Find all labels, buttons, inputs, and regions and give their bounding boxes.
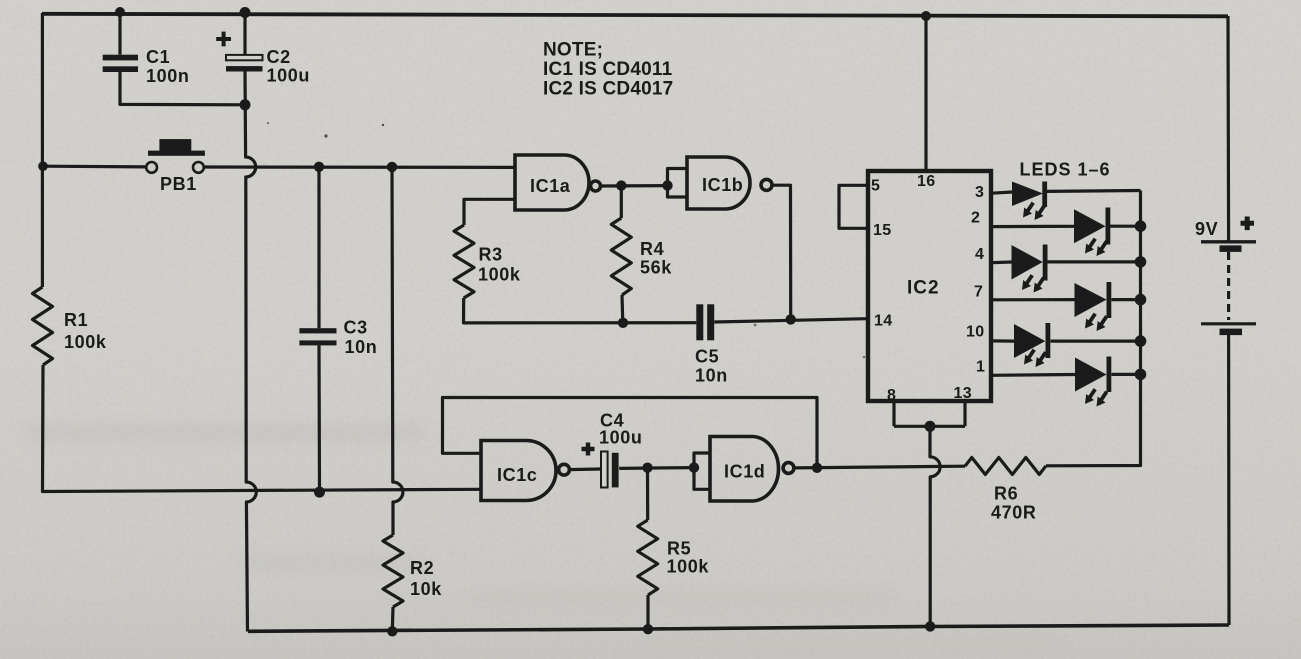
wire R2 drop from top net with hop <box>392 167 403 535</box>
wire battery negative to bottom rail <box>1227 334 1231 625</box>
node IC1b out / pin14 run <box>786 314 796 324</box>
node IC1d bracket <box>689 462 699 472</box>
svg-text:100u: 100u <box>599 428 642 448</box>
svg-text:C2: C2 <box>267 47 291 67</box>
wire IC1b output down to pin14 run <box>773 185 791 320</box>
svg-text:NOTE;: NOTE; <box>543 40 603 61</box>
node ground drop bottom rail <box>925 621 935 631</box>
svg-text:R6: R6 <box>994 484 1018 504</box>
wire R2 to bottom rail <box>391 607 395 632</box>
svg-text:15: 15 <box>873 222 891 239</box>
NAND gate IC1d <box>710 437 794 502</box>
resistor R6 <box>965 458 1046 475</box>
node C4 / R5 / IC1d input <box>642 463 652 473</box>
svg-text:8: 8 <box>887 387 896 404</box>
svg-text:3: 3 <box>975 184 984 201</box>
svg-text:R2: R2 <box>410 558 434 578</box>
svg-text:IC1 IS CD4011: IC1 IS CD4011 <box>543 59 673 80</box>
capacitor C5 <box>696 304 714 340</box>
svg-text:IC2: IC2 <box>907 278 940 299</box>
node C3 top <box>314 162 324 172</box>
faint print show-through <box>25 424 1060 650</box>
node IC1a output / R4 <box>616 180 626 190</box>
resistor R5 <box>638 520 658 595</box>
wire R6 to LED cathode bus <box>1046 191 1141 466</box>
svg-text:10: 10 <box>966 324 984 341</box>
wire IC1b tied-input bracket <box>668 169 688 198</box>
LED row 2 pin2 wires <box>992 225 1141 229</box>
svg-text:PB1: PB1 <box>160 174 197 194</box>
svg-text:2: 2 <box>971 210 980 227</box>
wire IC2 pin5 to pin15 bracket <box>839 185 867 228</box>
LED row 5 pin10 wires <box>992 339 1141 342</box>
node bus row4 <box>1135 294 1147 306</box>
node bus row6 <box>1135 369 1147 381</box>
LED row 4 pin7 wires <box>992 298 1141 301</box>
LED D1 <box>1012 182 1047 208</box>
wire IC1a output <box>601 184 668 188</box>
arrows for D1 <box>1023 203 1033 218</box>
svg-text:9V: 9V <box>1195 219 1218 239</box>
resistor R3 <box>454 225 474 298</box>
LED D2 <box>1074 208 1110 245</box>
wire IC1d tied-input bracket <box>694 453 710 489</box>
svg-text:16: 16 <box>917 173 935 190</box>
wire R5 to bottom rail <box>646 595 649 629</box>
svg-text:10n: 10n <box>345 337 378 357</box>
svg-text:IC1d: IC1d <box>724 462 765 482</box>
wire IC1a lower input stub <box>464 199 515 225</box>
capacitor C2 (electrolytic) <box>216 32 262 72</box>
node R2 bottom rail <box>387 626 397 636</box>
wire bottom 0V rail <box>248 625 1229 631</box>
svg-text:C3: C3 <box>344 318 368 338</box>
arrows for D6 <box>1085 389 1095 404</box>
node bus row3 <box>1135 256 1147 268</box>
node IC1b input bracket <box>662 180 672 190</box>
svg-text:IC1a: IC1a <box>530 176 571 196</box>
wire IC2 pins 8 and 13 to ground with hop <box>894 402 965 426</box>
node top rail / C2 <box>240 7 251 18</box>
wire R4 drop <box>620 186 623 218</box>
op-amp style NAND gate IC1a <box>515 155 601 210</box>
resistor R2 <box>383 535 403 607</box>
wire battery positive drop <box>1226 16 1230 241</box>
node top rail / IC2 pin16 <box>921 11 931 21</box>
battery BT1 9V <box>1201 217 1256 336</box>
pushbutton PB1 <box>146 139 205 173</box>
wire IC1d output run to R6 <box>794 466 965 468</box>
LED D4 <box>1075 282 1112 318</box>
node top rail / C1 <box>115 7 125 17</box>
svg-text:R4: R4 <box>640 239 664 259</box>
svg-text:7: 7 <box>974 284 983 301</box>
node IC2 8-13 bracket <box>925 421 936 432</box>
svg-text:C1: C1 <box>146 47 170 67</box>
arrows for D4 <box>1085 314 1095 329</box>
capacitor C3 leads <box>317 167 321 492</box>
node C3 bottom <box>314 487 325 498</box>
svg-text:10k: 10k <box>410 579 442 599</box>
IC2 body <box>868 171 991 401</box>
svg-text:4: 4 <box>975 246 984 263</box>
capacitor C1 <box>103 55 138 72</box>
wire IC2 pin16 drop from rail <box>924 16 927 170</box>
svg-text:R5: R5 <box>667 539 691 559</box>
wire top supply rail <box>42 14 1228 16</box>
LED row 3 pin4 wires <box>992 260 1141 264</box>
svg-text:100k: 100k <box>478 265 521 285</box>
node bus row5 <box>1135 335 1147 347</box>
node left border / PB1 <box>38 161 48 171</box>
svg-text:13: 13 <box>954 385 972 402</box>
svg-text:470R: 470R <box>991 503 1036 523</box>
svg-text:R3: R3 <box>479 245 503 265</box>
wire C5 right to IC2 pin14 <box>714 319 867 322</box>
wire PB1 right lead to IC1a input <box>204 165 515 169</box>
NAND gate IC1c <box>481 441 569 501</box>
wire left border with R1 and bottom-left corner <box>41 13 44 287</box>
svg-text:1: 1 <box>976 359 985 376</box>
LED D3 <box>1012 245 1048 281</box>
svg-text:5: 5 <box>871 178 880 195</box>
wire C4 to IC1d inputs <box>619 466 694 470</box>
wire left border lower and y492 run <box>43 365 482 492</box>
capacitor C3 <box>299 328 336 345</box>
svg-text:100k: 100k <box>667 557 710 577</box>
node feedback / IC1d output <box>812 463 822 473</box>
resistor R4 <box>611 218 631 295</box>
svg-text:IC1c: IC1c <box>497 465 537 485</box>
svg-text:C5: C5 <box>695 347 719 367</box>
node R5 bottom rail <box>643 624 653 634</box>
wire R4 bottom <box>620 295 624 323</box>
arrows for D3 <box>1022 275 1032 290</box>
svg-text:100k: 100k <box>64 332 107 352</box>
LED row 6 pin1 wires <box>992 373 1141 377</box>
wire IC1c output to C4 <box>568 467 601 471</box>
svg-text:R1: R1 <box>64 310 88 330</box>
svg-text:14: 14 <box>874 313 892 330</box>
wire feedback loop IC1d out to IC1c input <box>443 398 818 468</box>
svg-text:10n: 10n <box>695 366 728 386</box>
svg-text:IC2 IS CD4017: IC2 IS CD4017 <box>543 79 673 100</box>
capacitor C4 (electrolytic) <box>582 443 619 488</box>
scan specks <box>267 122 865 358</box>
svg-text:LEDS 1–6: LEDS 1–6 <box>1020 160 1111 180</box>
node R4 bottom <box>618 318 628 328</box>
wire PB1 left lead <box>44 165 146 169</box>
arrows for D2 <box>1085 239 1095 254</box>
node C1-C2 junction <box>240 99 251 110</box>
LED D5 <box>1014 323 1050 358</box>
capacitor C1 leads <box>120 12 245 105</box>
svg-text:100u: 100u <box>267 66 310 86</box>
resistor R1 <box>33 287 53 365</box>
svg-text:100n: 100n <box>146 66 189 86</box>
node R2 top <box>387 162 397 172</box>
LED row 1 pin3 wires <box>992 191 1141 194</box>
LED D6 <box>1075 357 1111 393</box>
NAND gate IC1b <box>687 157 772 209</box>
svg-text:IC1b: IC1b <box>702 175 743 195</box>
capacitor C2 lead and vertical with hops <box>243 12 246 55</box>
wire R5 drop <box>646 468 649 520</box>
wire R3 bottom to oscillator bottom run <box>464 298 697 323</box>
svg-text:56k: 56k <box>640 258 672 278</box>
arrows for D5 <box>1024 350 1034 365</box>
node bus row2 <box>1135 220 1147 232</box>
